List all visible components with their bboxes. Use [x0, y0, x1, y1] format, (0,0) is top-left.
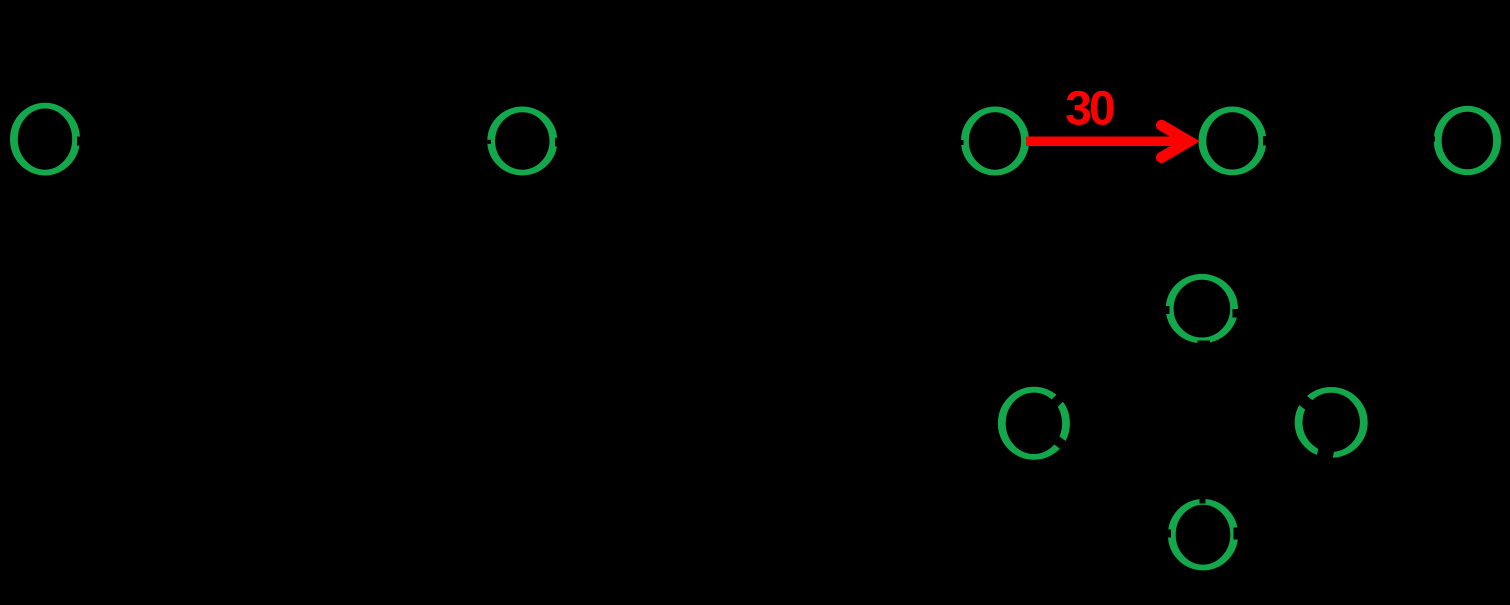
- svg-text:30: 30: [1065, 83, 1114, 136]
- red arrow : head chevron: [1162, 125, 1190, 157]
- node 3 (top row, third; red arrow starts here): [960, 109, 1026, 172]
- node 6 (subtree root, middle): [1165, 277, 1242, 347]
- red arrow (node 3 to node 4) : shaft: [1026, 137, 1180, 147]
- node 1 (top row, far left): [14, 106, 82, 173]
- node 7 (subtree, lower left): [1002, 390, 1068, 457]
- node 8 (subtree, lower right): [1298, 390, 1364, 465]
- node 5 (top row, far right): [1431, 109, 1497, 172]
- node 2 (top row, second): [487, 109, 559, 172]
- node 9 (subtree, bottom): [1165, 499, 1240, 568]
- node 4 (top row, fourth; red arrow points here): [1202, 109, 1268, 172]
